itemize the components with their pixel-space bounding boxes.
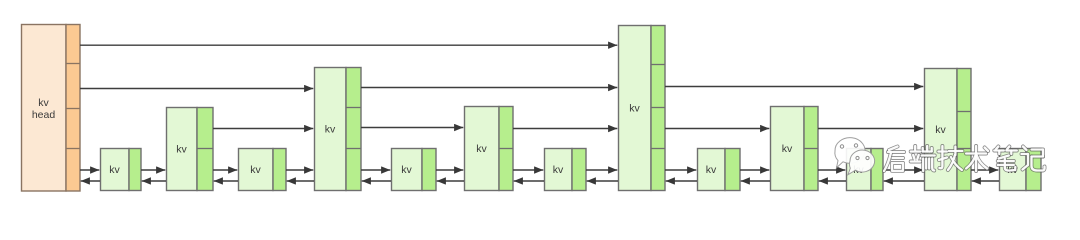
wire level3 H to L bbox=[665, 86, 923, 88]
wire level1 backward F to E bbox=[437, 180, 464, 182]
svg-text:kv: kv bbox=[325, 123, 336, 135]
svg-text:kv: kv bbox=[706, 164, 717, 176]
wire level1 backward B to A bbox=[142, 180, 166, 182]
node J bbox=[771, 107, 819, 191]
node G bbox=[545, 149, 587, 191]
wire level3 head to D bbox=[80, 88, 313, 90]
wire level2 H to J bbox=[665, 128, 769, 130]
wire level1 forward L to M bbox=[971, 169, 998, 171]
svg-text:kv: kv bbox=[782, 143, 793, 155]
wire level1 forward I to J bbox=[740, 169, 769, 171]
node M bbox=[1000, 149, 1042, 191]
node B bbox=[167, 108, 214, 191]
svg-text:head: head bbox=[32, 109, 56, 121]
node K bbox=[847, 149, 884, 191]
wire level1 backward I to H bbox=[666, 180, 697, 182]
wire level2 F to H bbox=[513, 128, 617, 130]
watermark text: hou duan ji shu bi ji bbox=[884, 146, 1045, 171]
node C bbox=[239, 149, 287, 191]
wire level1 backward K to J bbox=[819, 180, 846, 182]
svg-text:kv: kv bbox=[109, 164, 120, 176]
node L bbox=[925, 69, 972, 191]
head node kv head bbox=[22, 25, 81, 192]
wire level4 head to H bbox=[80, 44, 617, 46]
wire level1 forward D to E bbox=[361, 169, 390, 171]
wire level1 forward E to F bbox=[436, 169, 463, 171]
wire level1 backward G to F bbox=[514, 180, 544, 182]
wire level1 forward HEAD to A bbox=[80, 169, 99, 171]
wire level1 backward A to HEAD bbox=[81, 180, 100, 182]
wire level1 backward L to K bbox=[884, 180, 924, 182]
wire level1 backward D to C bbox=[287, 180, 314, 182]
node H bbox=[619, 26, 666, 191]
svg-text:kv: kv bbox=[401, 164, 412, 176]
wire level1 forward H to I bbox=[665, 169, 696, 171]
svg-text:kv: kv bbox=[553, 164, 564, 176]
svg-text:kv: kv bbox=[250, 164, 261, 176]
svg-text:kv: kv bbox=[935, 124, 946, 136]
node D bbox=[315, 68, 362, 191]
wire level1 backward H to G bbox=[587, 180, 618, 182]
wire level3 D to H bbox=[361, 87, 617, 89]
node E bbox=[392, 149, 437, 191]
wire level2 J to L bbox=[818, 128, 923, 130]
node A bbox=[101, 149, 142, 191]
wire level1 forward K to L bbox=[883, 169, 923, 171]
wire level1 forward B to C bbox=[213, 169, 237, 171]
wire level2 B to D bbox=[213, 128, 313, 130]
wire level1 forward G to H bbox=[586, 169, 617, 171]
wire level1 forward A to B bbox=[141, 169, 165, 171]
watermark wechat logo bbox=[835, 138, 875, 175]
wire level2 D to F bbox=[361, 127, 463, 129]
svg-text:kv: kv bbox=[629, 102, 640, 114]
wire level1 backward M to L bbox=[972, 180, 999, 182]
wire level1 backward E to D bbox=[362, 180, 391, 182]
wire level1 forward F to G bbox=[513, 169, 543, 171]
wire level1 forward C to D bbox=[286, 169, 313, 171]
svg-text:kv: kv bbox=[476, 143, 487, 155]
svg-text:kv: kv bbox=[176, 143, 187, 155]
wire level1 backward C to B bbox=[214, 180, 238, 182]
node I bbox=[698, 149, 741, 191]
wire level1 backward J to I bbox=[741, 180, 770, 182]
svg-text:kv: kv bbox=[38, 97, 49, 109]
node F bbox=[465, 107, 514, 191]
wire level1 forward J to K bbox=[818, 169, 845, 171]
